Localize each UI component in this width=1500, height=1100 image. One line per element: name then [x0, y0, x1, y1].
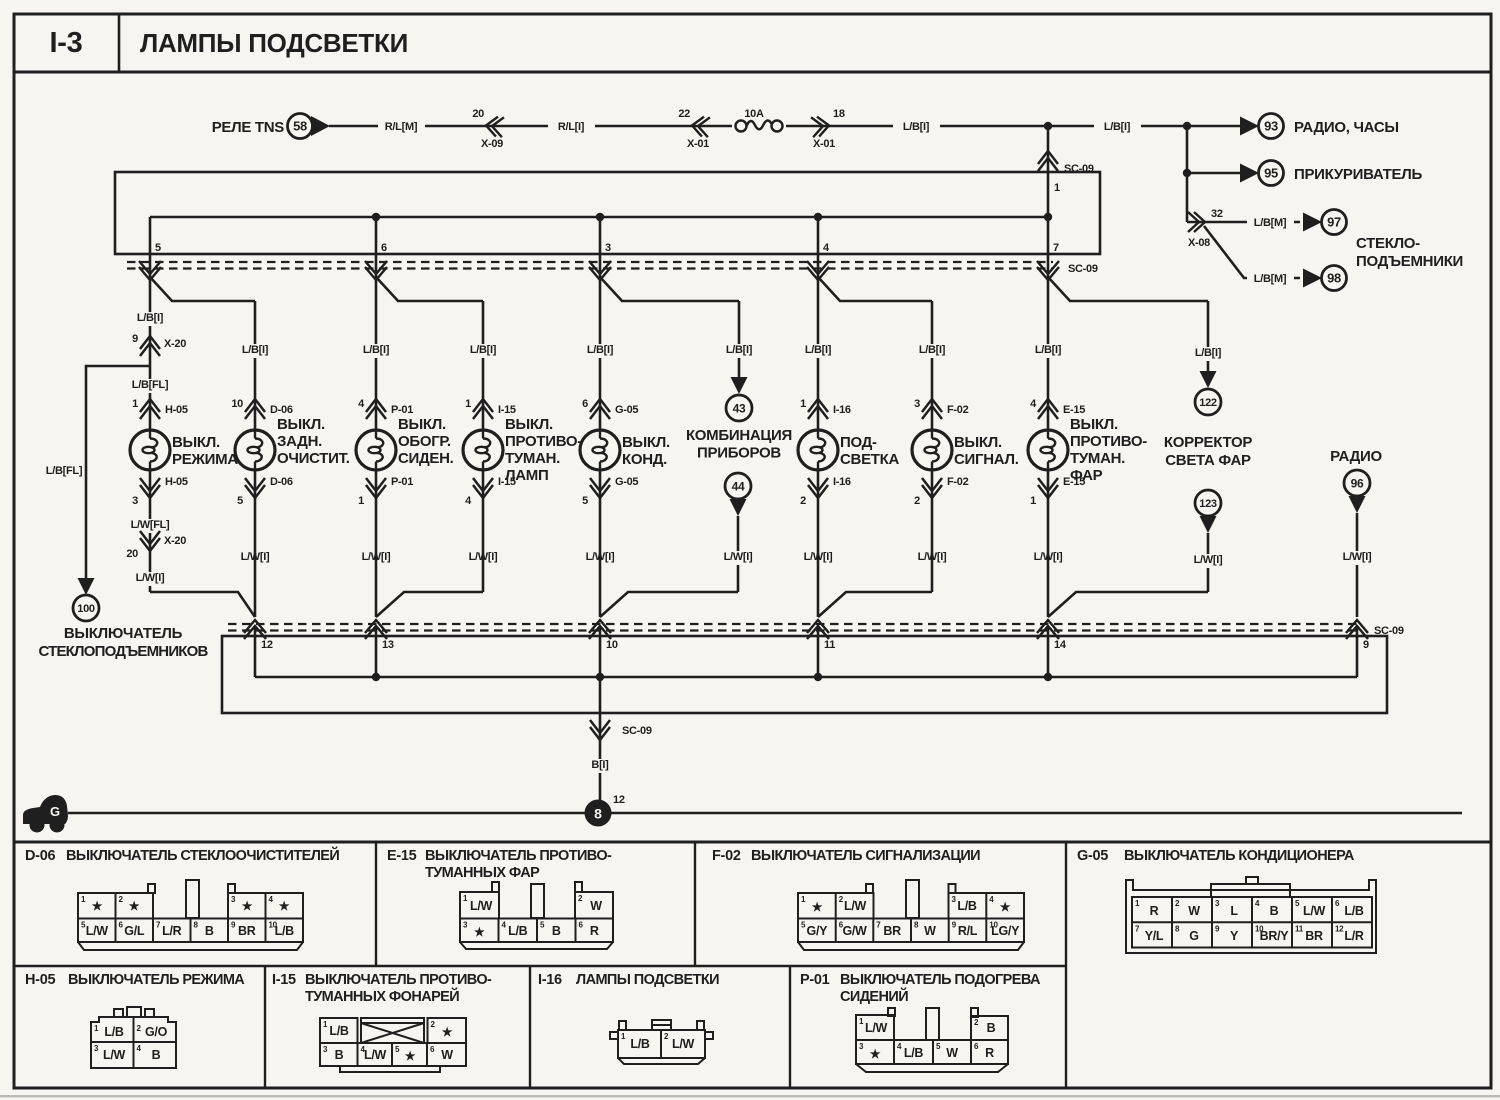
- divider F-02 / G-05: [1065, 842, 1067, 1088]
- wire label L/B[I] column D-06: [232, 344, 279, 358]
- svg-text:1: 1: [465, 398, 471, 410]
- wire label B[I]: [599, 720, 602, 813]
- svg-text:L/W[I]: L/W[I]: [1194, 554, 1223, 566]
- connector I-16 top pin 1: [808, 399, 828, 412]
- connector E-15 bottom pin 1: [1038, 485, 1058, 498]
- joint connector SC-09 top chevron: [1038, 151, 1058, 164]
- svg-text:G/L: G/L: [124, 924, 145, 938]
- svg-text:D-06: D-06: [270, 476, 293, 488]
- wire to circle 95: [1187, 172, 1240, 175]
- svg-text:W: W: [946, 1046, 958, 1060]
- svg-text:G/O: G/O: [145, 1025, 168, 1039]
- wire label L/W[I] column E-15: [1025, 551, 1072, 565]
- svg-text:ПРОТИВО-: ПРОТИВО-: [1070, 433, 1147, 450]
- wire P-01 down to bottom bus: [375, 470, 378, 617]
- svg-text:8: 8: [594, 806, 602, 822]
- junction node to accessories: [1183, 122, 1191, 130]
- svg-text:★: ★: [129, 899, 140, 913]
- destination circle 122: [1195, 389, 1221, 415]
- svg-text:G/Y: G/Y: [807, 924, 829, 938]
- svg-text:ВЫКЛ.: ВЫКЛ.: [954, 434, 1002, 451]
- svg-text:ПРИКУРИВАТЕЛЬ: ПРИКУРИВАТЕЛЬ: [1294, 166, 1422, 183]
- svg-text:12: 12: [261, 639, 273, 651]
- jog wire combination to bus pin 10: [600, 592, 738, 617]
- wire column P-01: [375, 277, 378, 430]
- svg-text:L/W: L/W: [672, 1037, 695, 1051]
- svg-text:R/L: R/L: [958, 924, 978, 938]
- illumination lamp in switch H-05: [130, 430, 170, 470]
- connector F-02 top pin 3: [922, 399, 942, 412]
- svg-text:96: 96: [1351, 476, 1364, 490]
- svg-text:I-3: I-3: [50, 27, 83, 59]
- svg-text:L/B: L/B: [1344, 904, 1364, 918]
- wire label L/B[I] column H-05: [127, 312, 174, 326]
- svg-text:97: 97: [1327, 215, 1341, 230]
- destination circle 93: [1259, 114, 1284, 139]
- svg-text:L/W[I]: L/W[I]: [1343, 551, 1372, 563]
- svg-text:L/B[I]: L/B[I]: [805, 344, 832, 356]
- diagonal wire to 98: [1204, 226, 1300, 278]
- svg-text:КОНД.: КОНД.: [622, 451, 667, 468]
- connector row divider: [14, 965, 1066, 967]
- svg-text:11: 11: [1295, 924, 1304, 933]
- wire to combination meter: [738, 301, 741, 378]
- wire column H-05 lower: [149, 470, 152, 592]
- connector F-02 pinout drawing: [798, 880, 1024, 950]
- bottom bus drop wire pin 9: [1356, 626, 1359, 677]
- connector X-08 pin 32: [1188, 212, 1205, 232]
- svg-text:★: ★: [870, 1047, 881, 1061]
- svg-text:H-05: H-05: [165, 404, 188, 416]
- source circle 96: [1344, 470, 1370, 496]
- connector X-01 pin 18: [811, 116, 830, 138]
- top bus connector chevron pin 4: [807, 261, 829, 274]
- svg-text:3: 3: [914, 398, 920, 410]
- svg-text:I-15: I-15: [272, 972, 296, 988]
- svg-text:W: W: [590, 899, 602, 913]
- svg-text:93: 93: [1264, 119, 1278, 134]
- svg-text:ЗАДН.: ЗАДН.: [277, 433, 322, 450]
- SC-09 dashed bus bottom: [228, 623, 1362, 625]
- svg-text:14: 14: [1054, 639, 1067, 651]
- svg-text:L/B[I]: L/B[I]: [726, 344, 753, 356]
- svg-text:L: L: [1230, 904, 1238, 918]
- svg-text:Y: Y: [1230, 929, 1239, 943]
- svg-text:G/W: G/W: [842, 924, 867, 938]
- svg-text:F-02: F-02: [947, 476, 969, 488]
- svg-text:L/W[FL]: L/W[FL]: [131, 519, 170, 531]
- svg-text:B[I]: B[I]: [591, 759, 609, 771]
- svg-text:L/B[I]: L/B[I]: [137, 312, 164, 324]
- svg-text:1: 1: [358, 495, 364, 507]
- connector X-20 pin 9: [140, 336, 160, 349]
- connector section top divider: [14, 841, 1491, 844]
- svg-text:E-15: E-15: [1063, 476, 1085, 488]
- relay TNS circle 58: [288, 114, 313, 139]
- bottom bus entry chevron pin 12: [244, 620, 266, 633]
- svg-text:I-15: I-15: [498, 404, 516, 416]
- svg-text:L/W: L/W: [103, 1048, 126, 1062]
- svg-text:ВЫКЛ.: ВЫКЛ.: [1070, 416, 1118, 433]
- ground wire: [68, 812, 1462, 815]
- svg-text:РЕЛЕ TNS: РЕЛЕ TNS: [212, 119, 285, 136]
- wire column E-15: [1047, 277, 1050, 430]
- wire column D-06: [254, 301, 257, 430]
- svg-text:ВЫКЛЮЧАТЕЛЬ КОНДИЦИОНЕРА: ВЫКЛЮЧАТЕЛЬ КОНДИЦИОНЕРА: [1124, 848, 1355, 864]
- svg-text:D-06: D-06: [270, 404, 293, 416]
- wire label L/W[I] column H-05: [127, 572, 174, 586]
- arrow into circle 43: [731, 377, 748, 394]
- svg-text:L/R: L/R: [1344, 929, 1364, 943]
- destination circle 97: [1322, 210, 1347, 235]
- bottom bus entry chevron pin 9: [1346, 620, 1368, 633]
- svg-text:G-05: G-05: [1077, 848, 1108, 864]
- svg-text:КОМБИНАЦИЯ: КОМБИНАЦИЯ: [686, 427, 792, 444]
- wire I-16 down to bottom bus: [817, 470, 820, 617]
- svg-text:X-08: X-08: [1188, 237, 1210, 249]
- svg-text:ПОД-: ПОД-: [840, 434, 877, 451]
- svg-text:BR: BR: [883, 924, 901, 938]
- svg-text:ВЫКЛ.: ВЫКЛ.: [622, 434, 670, 451]
- svg-text:9: 9: [1363, 639, 1369, 651]
- bottom bus entry chevron pin 14: [1037, 620, 1059, 633]
- top bus connector chevron pin 5: [139, 261, 161, 274]
- destination circle 98: [1322, 266, 1347, 291]
- svg-text:R: R: [590, 924, 599, 938]
- svg-text:100: 100: [77, 603, 95, 615]
- svg-text:L/W[I]: L/W[I]: [724, 551, 753, 563]
- junction on inner bus wire: [1044, 213, 1052, 221]
- wire label R/L[I]: [548, 121, 595, 135]
- svg-text:ПРОТИВО-: ПРОТИВО-: [505, 433, 582, 450]
- arrow into circle 122: [1200, 371, 1217, 388]
- svg-text:X-01: X-01: [813, 138, 835, 150]
- svg-text:ВЫКЛ.: ВЫКЛ.: [398, 416, 446, 433]
- svg-text:ВЫКЛЮЧАТЕЛЬ СИГНАЛИЗАЦИИ: ВЫКЛЮЧАТЕЛЬ СИГНАЛИЗАЦИИ: [751, 848, 980, 864]
- jog wire H-05 to bus pin 12: [150, 592, 255, 617]
- svg-text:SC-09: SC-09: [622, 725, 652, 737]
- svg-text:ВЫКЛЮЧАТЕЛЬ ПРОТИВО-: ВЫКЛЮЧАТЕЛЬ ПРОТИВО-: [425, 848, 612, 864]
- svg-text:W: W: [924, 924, 936, 938]
- svg-text:★: ★: [474, 925, 485, 939]
- divider E-15 / F-02: [694, 842, 696, 966]
- arrow out of circle 96: [1349, 496, 1366, 513]
- svg-text:G: G: [1189, 929, 1198, 943]
- wire label L/B[I] column E-15: [1025, 344, 1072, 358]
- svg-text:L/B[I]: L/B[I]: [903, 121, 930, 133]
- svg-text:X-09: X-09: [481, 138, 503, 150]
- svg-text:2: 2: [800, 495, 806, 507]
- svg-text:D-06: D-06: [25, 848, 55, 864]
- svg-text:L/B[I]: L/B[I]: [1195, 347, 1222, 359]
- svg-text:I-16: I-16: [538, 972, 562, 988]
- wire label L/B[I] first: [893, 121, 940, 135]
- bottom bus drop wire pin 12: [254, 626, 257, 677]
- connector G-05 pinout drawing: [1126, 877, 1376, 953]
- svg-text:B: B: [205, 924, 214, 938]
- svg-text:L/B[M]: L/B[M]: [1254, 217, 1287, 229]
- svg-text:ТУМАН.: ТУМАН.: [1070, 450, 1125, 467]
- svg-text:ВЫКЛ.: ВЫКЛ.: [172, 434, 220, 451]
- svg-text:X-20: X-20: [164, 338, 186, 350]
- connector X-01 pin 22: [691, 116, 710, 138]
- svg-text:СВЕТКА: СВЕТКА: [840, 451, 899, 468]
- illumination lamp in switch I-15: [463, 430, 503, 470]
- svg-text:10: 10: [606, 639, 618, 651]
- svg-text:22: 22: [678, 108, 690, 120]
- wire D-06 down to bottom bus: [254, 470, 257, 617]
- svg-text:32: 32: [1211, 208, 1223, 220]
- svg-text:12: 12: [613, 794, 625, 806]
- svg-text:R/L[M]: R/L[M]: [385, 121, 418, 133]
- svg-text:ПОДЪЕМНИКИ: ПОДЪЕМНИКИ: [1356, 253, 1463, 270]
- car body ground icon: [23, 795, 68, 824]
- svg-text:L/B: L/B: [275, 924, 295, 938]
- svg-text:L/B: L/B: [630, 1037, 650, 1051]
- wire bus to splice SC-09 bottom: [599, 677, 602, 720]
- svg-text:ТУМАН.: ТУМАН.: [505, 450, 560, 467]
- svg-text:L/R: L/R: [162, 924, 182, 938]
- top bus drop wire pin 4: [817, 217, 820, 277]
- source circle 123: [1195, 490, 1221, 516]
- svg-text:L/B[I]: L/B[I]: [242, 344, 269, 356]
- svg-text:G: G: [50, 804, 60, 819]
- connector X-09 pin 20: [485, 116, 504, 138]
- arrow to circle 95: [1240, 164, 1259, 183]
- top bus rectangle: [115, 172, 1100, 254]
- svg-text:ТУМАННЫХ ФОНАРЕЙ: ТУМАННЫХ ФОНАРЕЙ: [305, 987, 459, 1005]
- wire label L/B[I] leveling: [1185, 347, 1232, 361]
- divider D-06 / E-15: [375, 842, 377, 966]
- svg-text:L/B[M]: L/B[M]: [1254, 273, 1287, 285]
- junction dots on top inner wire: [372, 213, 380, 221]
- wire label L/W[FL]: [123, 519, 177, 533]
- bottom bus drop wire pin 14: [1047, 626, 1050, 677]
- svg-text:СИГНАЛ.: СИГНАЛ.: [954, 451, 1019, 468]
- svg-text:L/W: L/W: [470, 899, 493, 913]
- svg-text:★: ★: [92, 899, 103, 913]
- fork wire bus6 to I-15 column: [376, 277, 483, 301]
- svg-text:E-15: E-15: [1063, 404, 1085, 416]
- fork wire bus3 to combination meter column: [600, 277, 739, 301]
- connector H-05 pinout drawing: [91, 1007, 176, 1068]
- connector I-15 pinout drawing: [320, 1018, 466, 1072]
- svg-text:ЛАМПЫ ПОДСВЕТКИ: ЛАМПЫ ПОДСВЕТКИ: [140, 28, 408, 58]
- svg-text:B: B: [152, 1048, 161, 1062]
- wire column G-05: [599, 277, 602, 430]
- wire down to cigarette lighter branch: [1186, 126, 1189, 222]
- svg-text:6: 6: [381, 242, 387, 254]
- wire from 44 to bottom bus: [737, 516, 740, 592]
- svg-text:X-20: X-20: [164, 535, 186, 547]
- connector D-06 pinout drawing: [78, 880, 303, 950]
- svg-text:РЕЖИМА: РЕЖИМА: [172, 451, 238, 468]
- illumination lamp in switch D-06: [235, 430, 275, 470]
- wire column H-05 upper: [149, 277, 152, 430]
- svg-text:★: ★: [279, 899, 290, 913]
- svg-text:13: 13: [382, 639, 394, 651]
- bottom bus drop wire pin 10: [599, 626, 602, 677]
- top bus connector chevron pin 7: [1037, 261, 1059, 274]
- svg-text:44: 44: [732, 479, 745, 493]
- svg-text:L/W: L/W: [364, 1048, 387, 1062]
- wire E-15 down to bottom bus: [1047, 470, 1050, 617]
- wire from junction down to top bus: [1047, 126, 1050, 217]
- svg-text:★: ★: [442, 1025, 453, 1039]
- svg-text:ТУМАННЫХ ФАР: ТУМАННЫХ ФАР: [425, 865, 540, 881]
- svg-text:2: 2: [914, 495, 920, 507]
- svg-text:B: B: [552, 924, 561, 938]
- top bus connector chevron pin 3: [589, 261, 611, 274]
- svg-text:L/B[I]: L/B[I]: [587, 344, 614, 356]
- wire label R/L[M]: [378, 121, 425, 135]
- wire label L/W[I] radio: [1334, 551, 1381, 565]
- svg-text:1: 1: [800, 398, 806, 410]
- svg-text:BR: BR: [1305, 929, 1323, 943]
- wire label L/B[FL] column H-05: [123, 379, 177, 393]
- fork wire bus7 to headlamp leveling column: [1048, 277, 1208, 301]
- wire column I-16: [817, 277, 820, 430]
- svg-text:СТЕКЛОПОДЪЕМНИКОВ: СТЕКЛОПОДЪЕМНИКОВ: [38, 643, 208, 660]
- connector I-15 bottom pin 4: [473, 485, 493, 498]
- svg-text:43: 43: [733, 401, 746, 415]
- svg-text:КОРРЕКТОР: КОРРЕКТОР: [1164, 434, 1252, 451]
- svg-text:Y/L: Y/L: [1145, 929, 1164, 943]
- destination circle 100: [73, 595, 99, 621]
- wire radio to bottom bus: [1356, 513, 1359, 617]
- wire I-15 jog to bottom bus: [482, 470, 485, 592]
- svg-text:L/B[I]: L/B[I]: [919, 344, 946, 356]
- svg-text:R/L[I]: R/L[I]: [558, 121, 585, 133]
- wire label L/W[I] column G-05: [577, 551, 624, 565]
- svg-text:12: 12: [1335, 924, 1344, 933]
- illumination lamp in switch P-01: [356, 430, 396, 470]
- fork wire bus5 to D-06 column: [150, 277, 255, 301]
- svg-text:B: B: [1270, 904, 1279, 918]
- svg-text:L/B[I]: L/B[I]: [1104, 121, 1131, 133]
- svg-text:18: 18: [833, 108, 845, 120]
- wire label L/B[I] combination: [716, 344, 763, 358]
- header band divider: [13, 71, 1492, 74]
- svg-text:★: ★: [812, 900, 823, 914]
- connector H-05 top pin 1: [140, 399, 160, 412]
- svg-text:I-16: I-16: [833, 476, 851, 488]
- svg-text:3: 3: [605, 242, 611, 254]
- svg-text:L/B[FL]: L/B[FL]: [46, 465, 83, 477]
- svg-text:РАДИО: РАДИО: [1330, 448, 1382, 465]
- SC-09 dashed bus top: [127, 261, 1053, 263]
- wire from 123 to bottom bus: [1207, 533, 1210, 592]
- bottom bus drop wire pin 13: [375, 626, 378, 677]
- svg-text:L/B[I]: L/B[I]: [470, 344, 497, 356]
- svg-text:ОЧИСТИТ.: ОЧИСТИТ.: [277, 450, 350, 467]
- svg-text:СТЕКЛО-: СТЕКЛО-: [1356, 235, 1420, 252]
- divider H-05 / I-15: [264, 966, 266, 1088]
- top bus connector chevron pin 6: [365, 261, 387, 274]
- wire label L/W[I] column P-01: [353, 551, 400, 565]
- svg-text:R: R: [1150, 904, 1159, 918]
- illumination lamp in switch I-16: [798, 430, 838, 470]
- connector E-15 top pin 4: [1038, 399, 1058, 412]
- bottom bus entry chevron pin 11: [807, 620, 829, 633]
- svg-text:СИДЕН.: СИДЕН.: [398, 450, 454, 467]
- connector I-15 top pin 1: [473, 399, 493, 412]
- connector G-05 top pin 6: [590, 399, 610, 412]
- svg-text:P-01: P-01: [800, 972, 830, 988]
- svg-text:СИДЕНИЙ: СИДЕНИЙ: [840, 987, 908, 1005]
- svg-text:5: 5: [237, 495, 243, 507]
- bottom bus entry chevron pin 13: [365, 620, 387, 633]
- svg-text:11: 11: [824, 639, 835, 651]
- svg-text:SC-09: SC-09: [1068, 263, 1098, 275]
- svg-text:★: ★: [242, 899, 253, 913]
- connector F-02 bottom pin 2: [922, 485, 942, 498]
- connector G-05 bottom pin 5: [590, 485, 610, 498]
- svg-text:L/W: L/W: [1303, 904, 1326, 918]
- svg-text:1: 1: [132, 398, 138, 410]
- divider I-15 / I-16: [529, 966, 531, 1088]
- svg-text:F-02: F-02: [712, 848, 741, 864]
- wire column I-15: [482, 301, 485, 430]
- svg-text:L/W: L/W: [86, 924, 109, 938]
- illumination lamp in switch F-02: [912, 430, 952, 470]
- junction dots on bottom inner wire: [372, 673, 380, 681]
- svg-text:ВЫКЛ.: ВЫКЛ.: [505, 416, 553, 433]
- header I-3 cell divider: [118, 14, 121, 72]
- svg-text:РАДИО, ЧАСЫ: РАДИО, ЧАСЫ: [1294, 119, 1399, 136]
- connector I-16 pinout drawing: [610, 1020, 713, 1064]
- svg-text:X-01: X-01: [687, 138, 709, 150]
- svg-text:B: B: [987, 1021, 996, 1035]
- wire label L/W[I] column I-16: [795, 551, 842, 565]
- svg-text:P-01: P-01: [391, 404, 413, 416]
- illumination lamp in switch G-05: [580, 430, 620, 470]
- svg-text:ЛАМПЫ ПОДСВЕТКИ: ЛАМПЫ ПОДСВЕТКИ: [576, 972, 719, 988]
- svg-text:1: 1: [1030, 495, 1036, 507]
- svg-text:7: 7: [1053, 242, 1059, 254]
- svg-text:L/W[I]: L/W[I]: [136, 572, 165, 584]
- svg-text:SC-09: SC-09: [1374, 625, 1404, 637]
- connector E-15 pinout drawing: [460, 882, 613, 949]
- fuse 10A: [732, 114, 786, 138]
- connector D-06 top pin 10: [245, 399, 265, 412]
- svg-text:L/B: L/B: [508, 924, 528, 938]
- svg-text:5: 5: [155, 242, 161, 254]
- wire label L/B[I] column F-02: [909, 344, 956, 358]
- svg-text:I-15: I-15: [498, 476, 516, 488]
- illumination lamp in switch E-15: [1028, 430, 1068, 470]
- arrow out of circle 44: [730, 499, 747, 516]
- top bus drop wire pin 6: [375, 217, 378, 277]
- svg-text:L/B: L/B: [104, 1025, 124, 1039]
- joint connector SC-09 bottom chevron: [590, 727, 610, 740]
- connector X-20 pin 20: [140, 538, 160, 551]
- svg-text:58: 58: [293, 119, 307, 134]
- svg-text:9: 9: [132, 333, 138, 345]
- svg-text:H-05: H-05: [165, 476, 188, 488]
- svg-text:98: 98: [1327, 271, 1341, 286]
- wire label L/B[I] column P-01: [353, 344, 400, 358]
- svg-text:H-05: H-05: [25, 972, 55, 988]
- svg-text:★: ★: [1000, 900, 1011, 914]
- top bus drop wire pin 5: [149, 217, 152, 277]
- wire label L/B[I] column I-15: [460, 344, 507, 358]
- top bus inner wire: [150, 216, 1048, 219]
- svg-text:L/B: L/B: [329, 1024, 349, 1038]
- source circle 44: [725, 473, 751, 499]
- divider I-16 / P-01: [789, 966, 791, 1088]
- svg-text:B: B: [335, 1048, 344, 1062]
